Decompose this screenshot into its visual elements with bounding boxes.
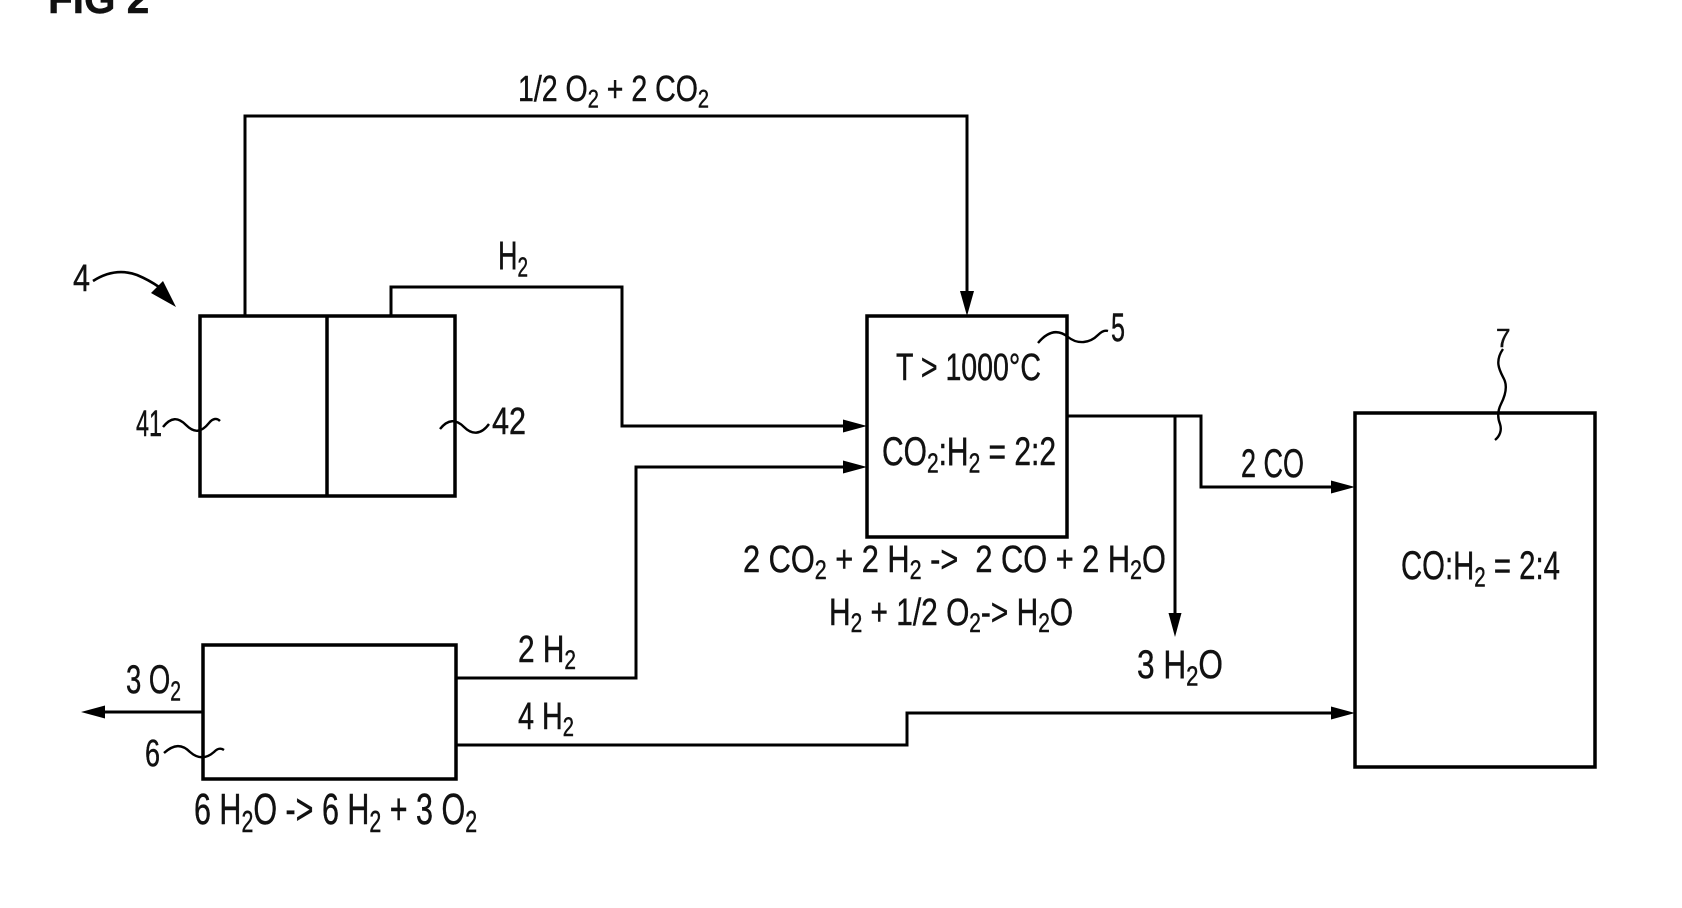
wire recycle 1/2 O2 + 2 CO2 top line	[245, 116, 967, 316]
wire 3 O2 out of box 6	[103, 711, 203, 714]
label 6	[145, 735, 160, 773]
label 2 H2	[518, 631, 576, 674]
wire H2 from box 4 to box 5	[391, 287, 846, 426]
label FIG 2	[48, 0, 149, 20]
mixer box 7	[1355, 413, 1595, 767]
label 7	[1496, 325, 1510, 351]
label 41	[136, 405, 162, 442]
arrowhead 3 O2 left	[81, 706, 105, 719]
label 3 H2O	[1137, 645, 1223, 690]
label reaction 2	[829, 594, 1073, 637]
arrowhead 3 H2O down	[1169, 613, 1182, 637]
arrowhead 2 H2 into box 5	[843, 461, 867, 474]
wire 2 H2 from box 6 to box 5	[456, 467, 846, 678]
label 5	[1111, 308, 1125, 348]
leader squiggle 42	[440, 421, 489, 432]
label CO:H2 = 2:4	[1401, 546, 1560, 591]
label 42	[492, 403, 526, 441]
label 1/2 O2 + 2 CO2	[518, 71, 709, 113]
leader squiggle 5	[1038, 331, 1108, 343]
label 4 H2	[518, 698, 574, 741]
electrolyzer box 6	[203, 645, 456, 779]
label 2 CO	[1241, 444, 1304, 484]
electrolyzer box 4	[200, 316, 455, 496]
leader squiggle 41	[163, 419, 220, 431]
arrowhead 4 H2 into box 7	[1331, 707, 1355, 720]
label CO2:H2 = 2:2	[882, 432, 1056, 477]
arrowhead 2 CO into box 7	[1331, 481, 1355, 494]
wire 4 H2 from box 6 to box 7	[456, 713, 1334, 745]
label H2	[498, 236, 528, 281]
wire 2 CO from box 5 to box 7	[1067, 416, 1334, 487]
label reaction 1	[743, 541, 1166, 584]
leader squiggle 6	[164, 746, 224, 757]
reactor box 5	[867, 316, 1067, 537]
label 4	[73, 260, 90, 298]
divider between 41 and 42	[325, 316, 329, 496]
label T > 1000 C	[896, 349, 1041, 387]
label 3 O2	[126, 660, 181, 705]
leader arrow 4	[93, 272, 159, 287]
label electrolysis reaction	[194, 788, 477, 838]
arrowhead into reactor 5 top	[960, 291, 974, 316]
leader squiggle 7	[1495, 349, 1506, 440]
wire 3 H2O branch down	[1174, 416, 1177, 616]
arrowhead H2 into box 5	[843, 420, 867, 433]
